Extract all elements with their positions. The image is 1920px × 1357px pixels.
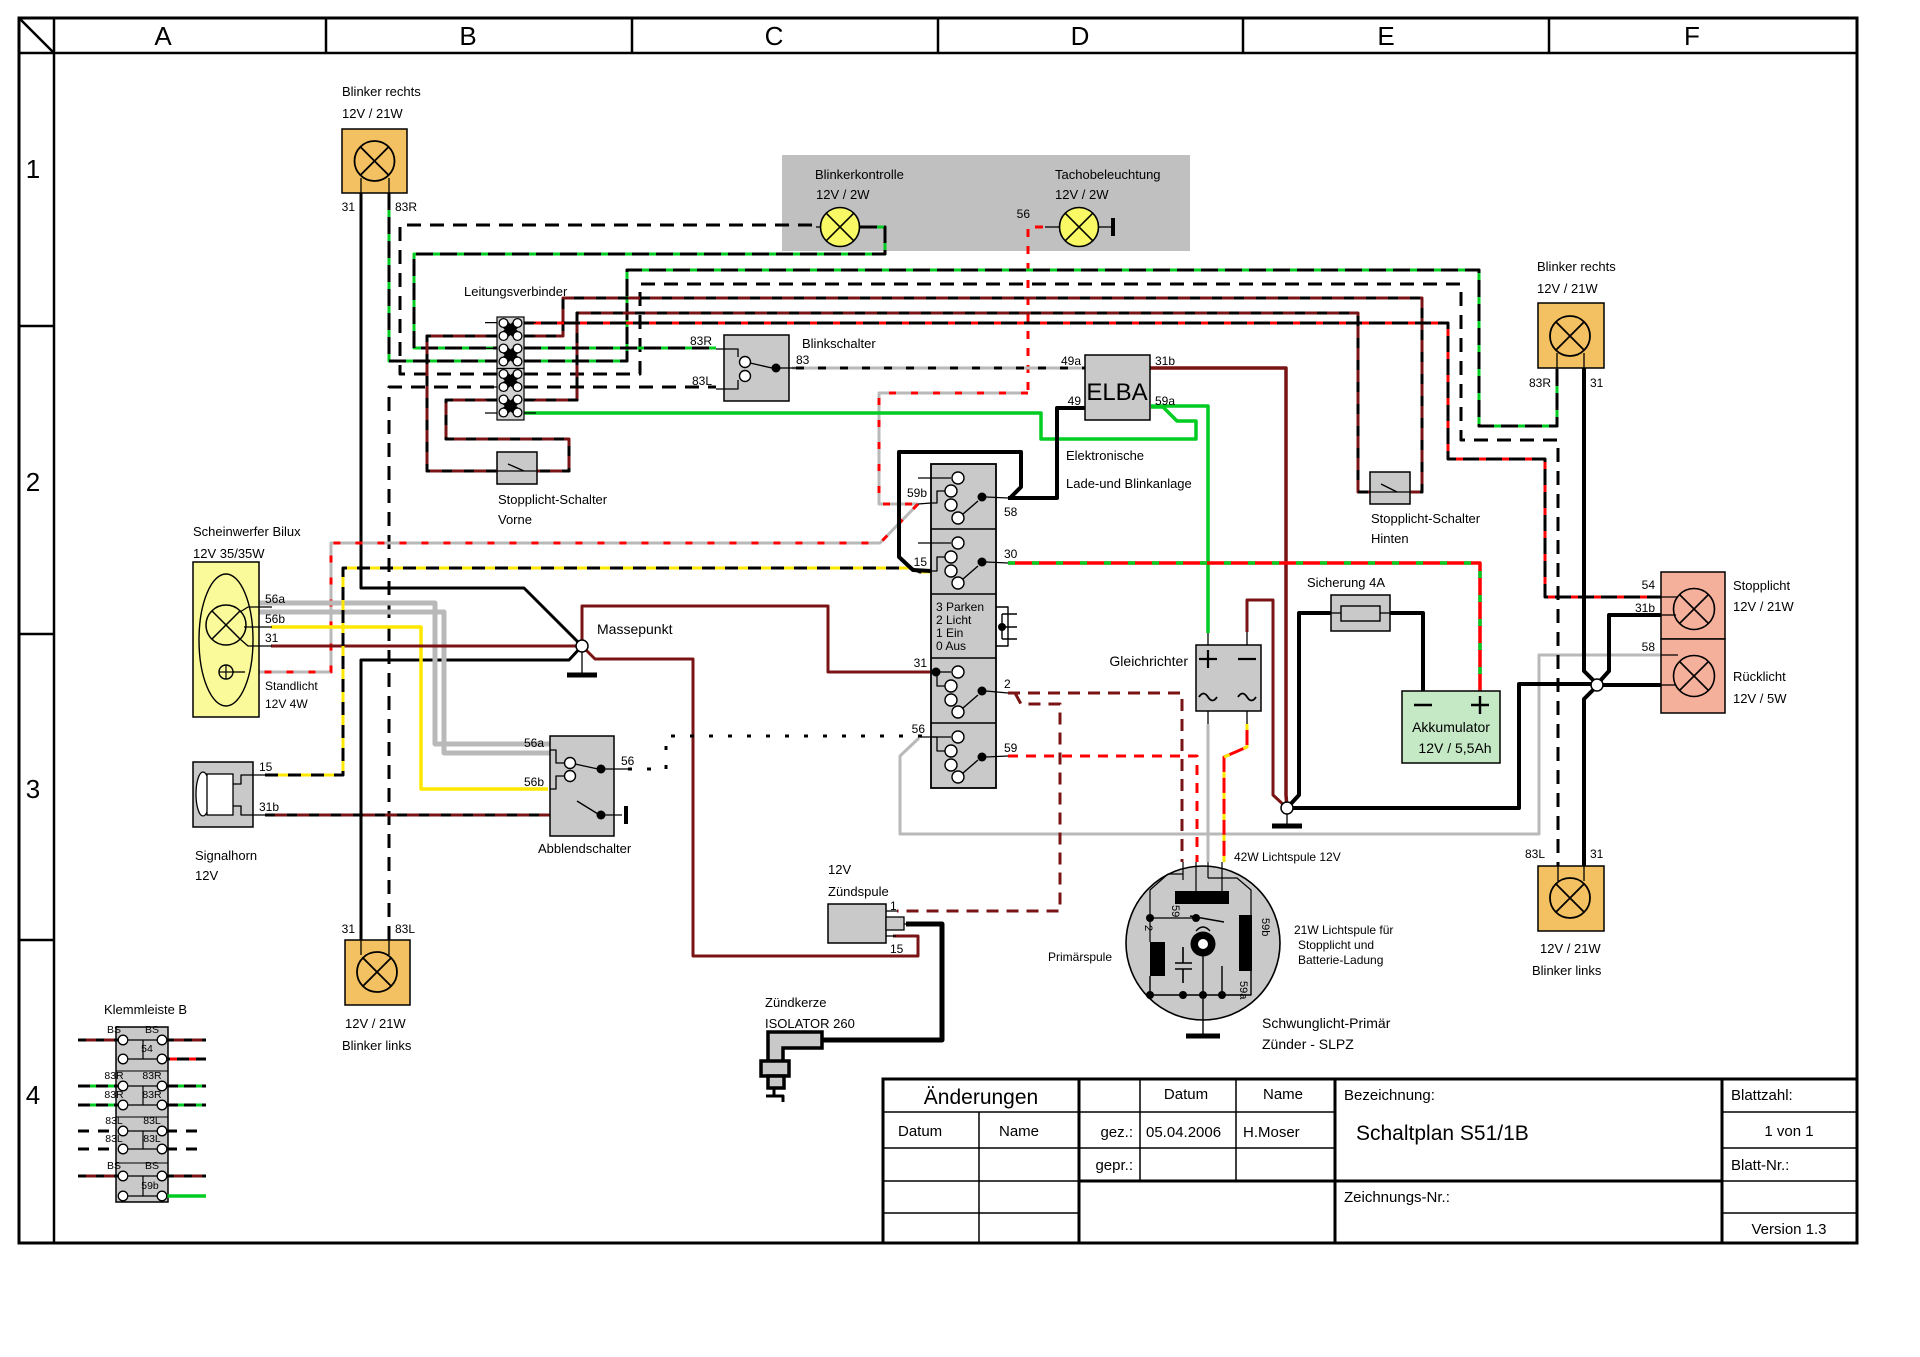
svg-text:Blinker rechts: Blinker rechts	[342, 84, 421, 99]
wire 2 branch to Zuendspule 1 (dark red dashed)	[897, 693, 1060, 911]
svg-text:2: 2	[26, 467, 40, 497]
lamp H3 Blinker rechts front (top left)	[342, 84, 422, 214]
switch section 5 (56/59)	[912, 722, 1018, 783]
svg-text:31b: 31b	[1155, 354, 1175, 368]
TITLE BLOCK	[883, 1079, 1857, 1243]
svg-text:ELBA: ELBA	[1086, 379, 1147, 406]
svg-text:Datum: Datum	[1164, 1086, 1208, 1103]
wire Zuendspule HT to Zuendkerze (black)	[822, 924, 942, 1040]
svg-text:Rücklicht: Rücklicht	[1733, 669, 1786, 684]
coil Zuendspule 12V	[828, 862, 910, 956]
svg-text:1 Ein: 1 Ein	[936, 626, 963, 640]
svg-text:83R: 83R	[142, 1089, 162, 1101]
svg-text:49a: 49a	[1061, 354, 1081, 368]
wire 54 (black/red) connector row1 to Stopplicht	[524, 323, 1661, 597]
battery Akkumulator 12V/5,5Ah	[1402, 691, 1500, 763]
rectifier Gleichrichter	[1109, 632, 1261, 724]
spark plug Zuendkerze ISOLATOR 260	[761, 995, 855, 1102]
svg-text:Signalhorn: Signalhorn	[195, 848, 257, 863]
wire 59b connector row8 to ELBA 59a (green)	[524, 407, 1196, 439]
wire connector row6 to Blinkschalter 83L (black dashed)	[524, 386, 716, 389]
svg-text:Gleichrichter: Gleichrichter	[1109, 653, 1188, 669]
svg-text:Zeichnungs-Nr.:: Zeichnungs-Nr.:	[1344, 1189, 1450, 1206]
svg-text:83: 83	[796, 353, 810, 367]
wire connector row3 to Blinkschalter 83R (black/green)	[524, 347, 716, 350]
wire 59 switch to SLPZ (red dashed)	[1008, 756, 1197, 862]
wire Stopplicht-Schalter Vorne right to connector row7 (dark red/black)	[446, 400, 569, 471]
lamp Blinkerkontrolle 12V/2W	[815, 167, 904, 247]
svg-text:Datum: Datum	[898, 1123, 942, 1140]
svg-text:83L: 83L	[105, 1133, 123, 1145]
svg-text:59a: 59a	[1155, 394, 1175, 408]
switch Abblendschalter	[524, 736, 635, 856]
bus 83R right (black/green) connector row4 to rear blinker right	[524, 270, 1557, 426]
svg-text:2: 2	[1004, 677, 1011, 691]
svg-text:1: 1	[890, 899, 897, 913]
svg-text:BS: BS	[107, 1160, 121, 1172]
svg-text:Akkumulator: Akkumulator	[1412, 719, 1490, 735]
svg-text:42W Lichtspule 12V: 42W Lichtspule 12V	[1234, 850, 1341, 864]
svg-text:56b: 56b	[265, 612, 285, 626]
wire 56b headlight to Abblendschalter (yellow)	[271, 627, 548, 789]
terminal row BS/BS (rear brake)	[78, 1160, 206, 1196]
svg-text:Scheinwerfer Bilux: Scheinwerfer Bilux	[193, 524, 301, 539]
svg-text:31: 31	[342, 200, 356, 214]
svg-text:12V / 21W: 12V / 21W	[1537, 281, 1598, 296]
svg-text:0 Aus: 0 Aus	[936, 639, 966, 653]
svg-text:Sicherung 4A: Sicherung 4A	[1307, 575, 1385, 590]
wire Stopplicht-Schalter Vorne left to connector row2 (dark red/black)	[427, 336, 497, 471]
svg-text:83L: 83L	[143, 1133, 161, 1145]
svg-text:Schaltplan S51/1B: Schaltplan S51/1B	[1356, 1122, 1529, 1145]
svg-text:58: 58	[1004, 505, 1018, 519]
terminal strip Klemmleiste B	[104, 1002, 187, 1202]
switch Stopplicht-Schalter Vorne	[497, 452, 608, 527]
wire ground node 2 to lamp node (black)	[1287, 684, 1592, 808]
wire switch 58 loop to pin 15 (black)	[899, 452, 1021, 571]
wire 58/Standlicht net (grey with red dash)	[879, 393, 1028, 504]
svg-text:3 Parken: 3 Parken	[936, 600, 984, 614]
svg-text:59a: 59a	[1237, 981, 1249, 1000]
svg-text:83L: 83L	[105, 1115, 123, 1127]
svg-text:Stopplicht und: Stopplicht und	[1298, 938, 1374, 952]
lamp Tachobeleuchtung 12V/2W	[1017, 167, 1161, 247]
connector Leitungsverbinder	[464, 284, 568, 420]
relay ELBA (Elektronische Lade- und Blinkanlage)	[1061, 354, 1192, 491]
wire Sicherung to Akkumulator minus (black)	[1390, 613, 1423, 691]
svg-text:F: F	[1684, 21, 1700, 51]
svg-text:12V / 21W: 12V / 21W	[342, 106, 403, 121]
terminal row 59b	[118, 1180, 206, 1201]
wire Gleichrichter AC left to SLPZ (grey)	[1207, 724, 1210, 862]
svg-text:Elektronische: Elektronische	[1066, 448, 1144, 463]
svg-text:Version 1.3: Version 1.3	[1751, 1221, 1826, 1238]
svg-text:2 Licht: 2 Licht	[936, 613, 972, 627]
wire 31b Signalhorn to Abblendschalter (dark red/black)	[265, 814, 550, 817]
wire 83L rear blinker left to connector row6 (black dashed)	[389, 387, 497, 940]
svg-text:C: C	[765, 21, 784, 51]
svg-text:Blinker links: Blinker links	[1532, 963, 1602, 978]
svg-text:21W Lichtspule für: 21W Lichtspule für	[1294, 923, 1393, 937]
wire Blinkerkontrolle lamp return to connector row3 (black/green)	[414, 227, 885, 348]
bus 83L right (black dashed) connector row5 to rear blinker left	[524, 284, 1558, 866]
svg-text:BS: BS	[145, 1024, 159, 1036]
svg-text:Schwunglicht-Primär: Schwunglicht-Primär	[1262, 1015, 1391, 1031]
wire 31 front blinker right to Massepunkt (black)	[361, 193, 582, 646]
wire 30 switch to Akkumulator plus (red/green)	[1008, 563, 1480, 691]
svg-text:Batterie-Ladung: Batterie-Ladung	[1298, 953, 1383, 967]
terminal row BS/BS (front brake)	[78, 1024, 206, 1059]
svg-text:83R: 83R	[1529, 376, 1551, 390]
svg-text:83R: 83R	[104, 1070, 124, 1082]
svg-text:B: B	[459, 21, 476, 51]
svg-text:1: 1	[26, 154, 40, 184]
wire 31 headlight to Massepunkt (dark red)	[271, 645, 582, 648]
svg-text:15: 15	[914, 555, 928, 569]
svg-text:Lade-und Blinkanlage: Lade-und Blinkanlage	[1066, 476, 1192, 491]
svg-text:31: 31	[914, 656, 928, 670]
svg-text:12V / 2W: 12V / 2W	[816, 187, 870, 202]
svg-text:Name: Name	[999, 1123, 1039, 1140]
svg-text:Vorne: Vorne	[498, 512, 532, 527]
svg-text:Blinkschalter: Blinkschalter	[802, 336, 876, 351]
svg-text:2: 2	[1142, 925, 1154, 931]
coil 59 (lighting coil)	[1175, 891, 1229, 904]
wire 83R front blinker right to connector row4 (black/green)	[389, 193, 497, 361]
switch Stopplicht-Schalter Hinten	[1370, 472, 1481, 546]
svg-text:Blinker links: Blinker links	[342, 1038, 412, 1053]
svg-text:15: 15	[890, 942, 904, 956]
svg-text:31: 31	[1590, 376, 1604, 390]
svg-text:gepr.:: gepr.:	[1095, 1157, 1133, 1174]
svg-text:1 von 1: 1 von 1	[1764, 1123, 1813, 1140]
svg-text:59: 59	[1004, 741, 1018, 755]
wire Gleichrichter minus to ground node 2 (dark red)	[1247, 600, 1287, 808]
svg-text:83L: 83L	[143, 1115, 161, 1127]
terminal rows 83L/83L	[78, 1115, 206, 1154]
svg-text:31b: 31b	[1635, 601, 1655, 615]
svg-text:Leitungsverbinder: Leitungsverbinder	[464, 284, 568, 299]
svg-text:12V: 12V	[828, 862, 851, 877]
svg-text:Tachobeleuchtung: Tachobeleuchtung	[1055, 167, 1161, 182]
switch section 1 (59b/58)	[907, 472, 1018, 524]
svg-text:BS: BS	[145, 1160, 159, 1172]
svg-text:Änderungen: Änderungen	[924, 1086, 1038, 1109]
breaker contact	[1191, 932, 1216, 957]
svg-text:Bezeichnung:: Bezeichnung:	[1344, 1087, 1435, 1104]
svg-text:E: E	[1377, 21, 1394, 51]
wire ELBA 59a to Gleichrichter plus (green)	[1151, 406, 1208, 633]
bottom bus and ground	[1150, 971, 1251, 995]
wire Massepunkt to Zuendspule 15 (dark red)	[582, 646, 918, 956]
svg-text:Hinten: Hinten	[1371, 531, 1409, 546]
svg-text:31: 31	[265, 631, 279, 645]
svg-text:3: 3	[26, 774, 40, 804]
wire Massepunkt to switch pin 31 (dark red)	[582, 606, 936, 672]
svg-text:49: 49	[1068, 394, 1082, 408]
node lamp junction (white circle)	[1591, 679, 1603, 691]
svg-text:12V / 5W: 12V / 5W	[1733, 691, 1787, 706]
terminal rows 83R/83R	[78, 1070, 206, 1110]
svg-text:Stopplicht: Stopplicht	[1733, 578, 1790, 593]
coil 59b (21W charging coil)	[1239, 915, 1252, 971]
svg-text:Stopplicht-Schalter: Stopplicht-Schalter	[1371, 511, 1481, 526]
svg-text:12V 35/35W: 12V 35/35W	[193, 546, 265, 561]
svg-text:83R: 83R	[142, 1070, 162, 1082]
lamp Blinker links front (bottom left)	[342, 922, 416, 1053]
lamp Scheinwerfer Bilux headlight	[193, 524, 318, 717]
svg-text:D: D	[1071, 21, 1090, 51]
svg-text:12V: 12V	[195, 868, 218, 883]
switch section 4 (31/2)	[914, 656, 1011, 718]
svg-text:59b: 59b	[907, 486, 927, 500]
svg-text:12V 4W: 12V 4W	[265, 697, 308, 711]
svg-text:83L: 83L	[1525, 847, 1545, 861]
wire Zuendspule 1 pin stub (thin)	[886, 910, 897, 912]
svg-text:Blatt-Nr.:: Blatt-Nr.:	[1731, 1157, 1789, 1174]
svg-text:83R: 83R	[690, 334, 712, 348]
lamp Stopplicht 12V/21W	[1635, 572, 1794, 639]
switch Zuendlichtschalter (main light switch)	[931, 464, 996, 788]
svg-text:H.Moser: H.Moser	[1243, 1124, 1300, 1141]
svg-text:Zünder - SLPZ: Zünder - SLPZ	[1262, 1036, 1354, 1052]
svg-text:Name: Name	[1263, 1086, 1303, 1103]
magneto SLPZ (Schwunglicht-Primaer-Zuender)	[1048, 850, 1393, 1052]
fuse Sicherung 4A	[1307, 575, 1390, 631]
wire Sicherung to ground node 2 (black)	[1287, 613, 1331, 808]
wire 56 Abblendschalter to switch pin 56 (black dotted)	[628, 736, 931, 769]
svg-text:31b: 31b	[259, 800, 279, 814]
svg-text:Primärspule: Primärspule	[1048, 950, 1112, 964]
lamp Ruecklicht 12V/5W	[1642, 639, 1788, 713]
bus BS rear (dark red/black) connector row7 to Stopplicht-Schalter Hinten	[524, 313, 1370, 492]
svg-text:31: 31	[1590, 847, 1604, 861]
svg-text:ISOLATOR 260: ISOLATOR 260	[765, 1016, 855, 1031]
svg-text:54: 54	[141, 1043, 153, 1055]
svg-text:BS: BS	[107, 1024, 121, 1036]
horn Signalhorn 12V	[193, 760, 279, 883]
svg-text:56: 56	[1017, 207, 1031, 221]
ground node 2 (battery/rectifier ground)	[1272, 802, 1302, 826]
switch section 3 (positions 0-3)	[936, 600, 1017, 653]
wire 31 right blinkers vertical (black)	[1584, 368, 1595, 682]
svg-text:Klemmleiste B: Klemmleiste B	[104, 1002, 187, 1017]
wire 15 Signalhorn to switch pin 15 (black/yellow)	[265, 568, 931, 775]
svg-text:56b: 56b	[524, 775, 544, 789]
svg-text:05.04.2006: 05.04.2006	[1146, 1124, 1221, 1141]
wire ELBA 49 to switch 58 (black)	[1008, 408, 1085, 498]
svg-text:Zündspule: Zündspule	[828, 884, 889, 899]
svg-text:12V / 21W: 12V / 21W	[1733, 599, 1794, 614]
svg-text:4: 4	[26, 1080, 40, 1110]
svg-text:gez.:: gez.:	[1100, 1124, 1133, 1141]
svg-text:Stopplicht-Schalter: Stopplicht-Schalter	[498, 492, 608, 507]
svg-text:56: 56	[621, 754, 635, 768]
svg-text:12V / 21W: 12V / 21W	[1540, 941, 1601, 956]
wire switch 56 to Ruecklicht 58 (grey)	[900, 655, 1661, 834]
instrument panel (grey background)	[782, 155, 1190, 251]
wire Gleichrichter AC right to SLPZ (red/yellow)	[1224, 724, 1247, 862]
svg-text:59b: 59b	[141, 1180, 159, 1192]
wire Stopplicht 31b to lamp node (black)	[1600, 615, 1661, 681]
coil 2 (primary coil)	[1150, 942, 1165, 976]
svg-text:83R: 83R	[104, 1089, 124, 1101]
svg-text:15: 15	[259, 760, 273, 774]
svg-text:12V / 21W: 12V / 21W	[345, 1016, 406, 1031]
svg-text:83R: 83R	[395, 200, 417, 214]
svg-text:30: 30	[1004, 547, 1018, 561]
wire 83 Blinkschalter to ELBA 49a (grey/black)	[792, 367, 1085, 370]
svg-text:A: A	[154, 21, 172, 51]
wire 31 rear blinker left to Massepunkt (black)	[361, 646, 582, 940]
wire 56a headlight to Abblendschalter (double grey)	[259, 603, 550, 744]
svg-text:Massepunkt: Massepunkt	[597, 621, 673, 637]
svg-text:56: 56	[912, 722, 926, 736]
svg-text:Blattzahl:: Blattzahl:	[1731, 1087, 1793, 1104]
switch Blinkschalter	[690, 334, 876, 401]
switch section 2 (15/30)	[914, 537, 1018, 589]
svg-text:12V / 5,5Ah: 12V / 5,5Ah	[1418, 740, 1491, 756]
terminal row 54	[118, 1043, 206, 1064]
svg-text:58: 58	[1642, 640, 1656, 654]
capacitor	[1175, 947, 1192, 983]
wire connector row5 to Blinkerkontrolle lamp feed (black dashed)	[400, 225, 820, 374]
svg-text:83L: 83L	[395, 922, 415, 936]
bus BS front (dark red/black) connector row2 to Stopplicht-Schalter Hinten	[524, 298, 1422, 492]
svg-text:56a: 56a	[524, 736, 544, 750]
svg-text:Abblendschalter: Abblendschalter	[538, 841, 632, 856]
ground Massepunkt	[567, 621, 673, 675]
wire Zuendspule 15 pin stub (thin)	[886, 935, 896, 937]
wire 2 switch to SLPZ (dark red dashed)	[1008, 693, 1182, 862]
lamp Blinker links rear (right bottom)	[1525, 847, 1604, 978]
svg-text:Blinker rechts: Blinker rechts	[1537, 259, 1616, 274]
wire lamp node to Ruecklicht ground pin (black)	[1602, 683, 1661, 687]
svg-text:83L: 83L	[692, 374, 712, 388]
svg-text:Blinkerkontrolle: Blinkerkontrolle	[815, 167, 904, 182]
connector stars and pins	[485, 319, 536, 417]
svg-text:59b: 59b	[1259, 918, 1271, 936]
wire ELBA 31b to ground node 2 (dark red)	[1150, 368, 1287, 808]
wire 56 Tachobeleuchtung (red dashed)	[1028, 227, 1043, 393]
svg-text:59: 59	[1169, 905, 1181, 917]
svg-text:12V / 2W: 12V / 2W	[1055, 187, 1109, 202]
lamp Blinker rechts rear (right top)	[1529, 259, 1616, 390]
svg-text:31: 31	[342, 922, 356, 936]
svg-text:54: 54	[1642, 578, 1656, 592]
svg-text:Standlicht: Standlicht	[265, 679, 318, 693]
svg-text:Zündkerze: Zündkerze	[765, 995, 826, 1010]
svg-text:56a: 56a	[265, 592, 285, 606]
